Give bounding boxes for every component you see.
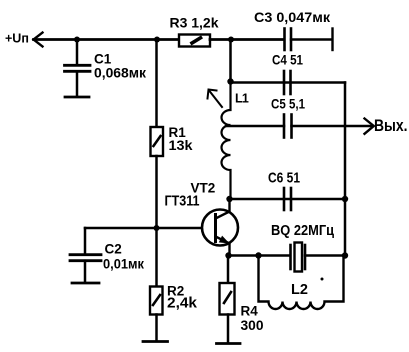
resistor R1 <box>151 127 164 156</box>
terminal C3 right <box>331 29 333 51</box>
wire R4 to ground <box>227 315 230 344</box>
svg-text:2,4k: 2,4k <box>167 296 198 312</box>
junction R3 right <box>228 37 234 43</box>
label R1 <box>169 125 193 153</box>
svg-text:13k: 13k <box>169 137 193 153</box>
capacitor C2 <box>70 255 101 261</box>
wire rail to L1 top <box>229 40 232 82</box>
wire C4 row <box>231 81 346 84</box>
wire top rail left <box>34 38 180 41</box>
wire R1 to base node <box>155 156 158 228</box>
resistor R4 <box>220 283 235 315</box>
svg-text:L1: L1 <box>235 92 249 106</box>
wire base row left <box>85 227 157 230</box>
wire base lead <box>157 227 216 230</box>
wire emitter row right <box>305 254 345 257</box>
wire L1 tap to C5 <box>226 125 284 128</box>
svg-text:C1: C1 <box>94 52 112 67</box>
transistor VT2 <box>202 199 238 256</box>
svg-text:C3 0,047мк: C3 0,047мк <box>254 9 331 25</box>
junction collector node <box>226 196 232 202</box>
capacitor C1 <box>65 65 91 71</box>
wire R2 to ground <box>155 315 158 342</box>
svg-text:0,01мк: 0,01мк <box>103 257 144 272</box>
wire C2 branch <box>84 228 87 255</box>
junction C6 right <box>342 196 348 202</box>
junction L1 top <box>227 78 233 84</box>
svg-text:BQ 22МГц: BQ 22МГц <box>271 223 334 239</box>
label R2 <box>167 284 198 312</box>
wire C1 to ground <box>76 71 79 96</box>
svg-text:C6 51: C6 51 <box>268 170 300 187</box>
label C2 <box>103 242 144 272</box>
junction crystal right <box>342 252 348 258</box>
svg-text:C2: C2 <box>105 242 122 257</box>
junction R3 left <box>154 37 160 43</box>
wire R4 branch <box>227 256 230 284</box>
wire rail R3 to C3 <box>210 38 284 41</box>
svg-text:300: 300 <box>241 318 264 333</box>
capacitor C3 <box>285 29 292 51</box>
svg-text:R3 1,2k: R3 1,2k <box>170 15 219 31</box>
junction emitter node <box>225 252 231 258</box>
label R4 <box>241 304 264 334</box>
resistor R3 <box>179 35 210 47</box>
terminal arrow +Un <box>34 33 43 47</box>
wire emitter row left <box>229 254 290 257</box>
wire R2 branch <box>155 228 158 287</box>
capacitor C5 <box>284 115 292 138</box>
wire right rail <box>344 83 347 256</box>
svg-text:ГТ311: ГТ311 <box>165 193 200 210</box>
wire C6 row <box>230 198 346 201</box>
label VT2 <box>165 181 216 210</box>
inductor L1 <box>222 82 231 200</box>
label C1 <box>94 52 146 81</box>
wire C2 to ground <box>84 261 87 283</box>
speck near L2 <box>321 278 324 281</box>
svg-text:C4 51: C4 51 <box>272 53 303 68</box>
terminal arrow output <box>365 119 374 134</box>
ground C1 <box>65 96 89 99</box>
ground R4 <box>217 342 241 345</box>
crystal BQ <box>291 243 306 272</box>
wire C3 to terminal <box>291 38 332 41</box>
svg-text:C5 5,1: C5 5,1 <box>271 97 305 112</box>
svg-text:0,068мк: 0,068мк <box>94 66 146 81</box>
wire C5 to output <box>292 125 374 128</box>
svg-text:Вых.: Вых. <box>374 117 408 135</box>
capacitor C6 <box>284 188 291 210</box>
junction C1 top <box>74 37 80 43</box>
tuning arrow L1 <box>208 90 223 108</box>
junction L2 left <box>255 252 261 258</box>
wire R1 branch <box>155 40 158 128</box>
wire C1 branch <box>76 40 79 66</box>
svg-text:L2: L2 <box>291 282 308 298</box>
ground C2 <box>72 282 99 285</box>
ground R2 <box>143 340 168 343</box>
inductor L2 <box>259 256 344 310</box>
resistor R2 <box>150 287 163 315</box>
capacitor C4 <box>284 71 291 94</box>
svg-text:+Uп: +Uп <box>5 32 29 46</box>
svg-text:R4: R4 <box>241 304 259 319</box>
junction base node <box>154 225 160 231</box>
